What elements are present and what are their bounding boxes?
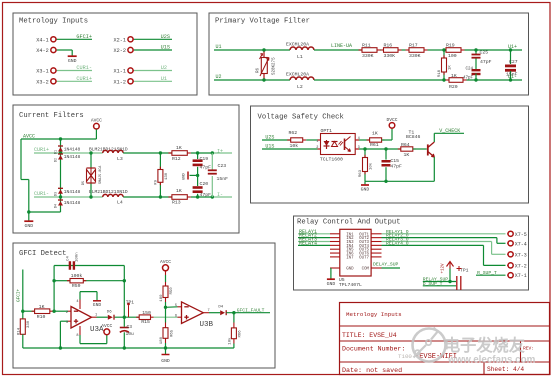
svg-text:CUR1-: CUR1- — [76, 65, 92, 71]
svg-text:GFCI+: GFCI+ — [76, 34, 92, 40]
svg-text:R_SUP_T: R_SUP_T — [477, 270, 497, 276]
svg-text:R50: R50 — [170, 287, 174, 295]
svg-text:R66: R66 — [239, 330, 243, 338]
svg-text:RELAY4: RELAY4 — [299, 240, 317, 246]
svg-text:8: 8 — [76, 334, 78, 338]
svg-text:Metrology Inputs: Metrology Inputs — [19, 18, 88, 26]
svg-text:D4: D4 — [218, 305, 223, 309]
svg-text:R9: R9 — [155, 179, 159, 184]
svg-text:47pF: 47pF — [480, 59, 492, 65]
svg-text:10u: 10u — [126, 331, 135, 337]
svg-text:C20: C20 — [200, 181, 209, 187]
svg-text:4: 4 — [76, 300, 78, 304]
svg-text:47pF: 47pF — [390, 164, 402, 170]
svg-text:100: 100 — [448, 53, 457, 59]
svg-text:R11: R11 — [362, 42, 371, 48]
svg-text:D2: D2 — [55, 158, 59, 162]
svg-text:DVCC: DVCC — [386, 117, 397, 123]
svg-text:X2-1: X2-1 — [114, 38, 126, 44]
svg-text:Relay Control And Output: Relay Control And Output — [297, 219, 401, 227]
svg-text:D3: D3 — [55, 192, 59, 196]
svg-text:Document Number:: Document Number: — [342, 346, 405, 353]
svg-text:U1S: U1S — [161, 45, 170, 51]
svg-text:U3B: U3B — [200, 321, 214, 329]
svg-text:6: 6 — [175, 314, 177, 318]
svg-text:C19: C19 — [200, 156, 209, 162]
svg-text:100n: 100n — [76, 252, 80, 262]
svg-text:Sheet: 4/4: Sheet: 4/4 — [487, 366, 524, 373]
svg-text:2: 2 — [316, 146, 318, 150]
svg-text:X1-1: X1-1 — [114, 69, 126, 75]
svg-text:R61: R61 — [370, 142, 379, 148]
svg-text:X2-2: X2-2 — [114, 48, 126, 54]
svg-text:+12V: +12V — [442, 263, 446, 274]
svg-text:10k: 10k — [290, 143, 299, 149]
svg-text:SMAJ5.0CA: SMAJ5.0CA — [99, 165, 103, 184]
svg-text:L4: L4 — [117, 200, 123, 206]
svg-text:15nF: 15nF — [506, 72, 518, 78]
svg-text:D1: D1 — [55, 150, 59, 154]
svg-text:15nF: 15nF — [217, 176, 229, 182]
svg-text:L2: L2 — [297, 84, 303, 90]
svg-text:Current Filters: Current Filters — [19, 112, 84, 120]
svg-text:1: 1 — [316, 140, 318, 144]
svg-text:R63: R63 — [359, 169, 363, 177]
svg-text:1K: 1K — [176, 145, 182, 151]
svg-text:X7-5: X7-5 — [515, 232, 527, 238]
svg-text:I-: I- — [217, 192, 223, 198]
svg-text:GND: GND — [346, 268, 354, 272]
svg-text:U2: U2 — [216, 74, 222, 80]
svg-text:D4: D4 — [55, 204, 59, 208]
svg-text:X1-2: X1-2 — [114, 80, 126, 86]
svg-text:130: 130 — [165, 172, 169, 180]
svg-text:R62: R62 — [289, 130, 298, 136]
svg-text:1N4148: 1N4148 — [64, 146, 81, 152]
svg-text:GND: GND — [361, 187, 370, 193]
svg-text:EXCML20A: EXCML20A — [286, 42, 309, 48]
svg-text:U2: U2 — [161, 65, 167, 71]
svg-text:X7-4: X7-4 — [515, 241, 527, 247]
svg-text:X3-2: X3-2 — [36, 80, 48, 86]
svg-text:C23: C23 — [218, 163, 227, 169]
svg-text:S20K275: S20K275 — [273, 57, 277, 75]
svg-text:TITLE: EVSE_U4: TITLE: EVSE_U4 — [342, 332, 397, 339]
svg-text:I+: I+ — [217, 149, 223, 155]
svg-text:1K: 1K — [451, 73, 457, 79]
svg-text:D6: D6 — [107, 310, 112, 314]
svg-text:C27: C27 — [509, 59, 518, 65]
svg-text:EXCML20A: EXCML20A — [286, 72, 309, 78]
svg-text:DELAY_SUP: DELAY_SUP — [373, 261, 399, 267]
svg-text:180: 180 — [160, 294, 164, 302]
svg-text:330K: 330K — [409, 53, 421, 59]
svg-text:C24: C24 — [465, 68, 473, 72]
svg-text:AVCC: AVCC — [23, 134, 35, 140]
svg-text:100k: 100k — [71, 273, 83, 279]
svg-text:Metrology Inputs: Metrology Inputs — [346, 311, 402, 318]
svg-text:330: 330 — [27, 320, 31, 328]
svg-text:1N4148: 1N4148 — [64, 200, 81, 206]
svg-text:TP1: TP1 — [126, 299, 135, 305]
svg-text:R59: R59 — [72, 283, 81, 289]
svg-text:IN7: IN7 — [346, 256, 354, 260]
svg-text:电子发烧友: 电子发烧友 — [444, 336, 526, 355]
svg-text:LINE-UA: LINE-UA — [331, 43, 352, 49]
svg-text:X3-1: X3-1 — [36, 69, 48, 75]
svg-text:330K: 330K — [384, 53, 396, 59]
svg-text:R6: R6 — [257, 68, 261, 74]
svg-text:180: 180 — [160, 336, 164, 344]
svg-text:5: 5 — [175, 304, 177, 308]
svg-text:Date: not saved: Date: not saved — [342, 367, 402, 375]
svg-text:CUR1-: CUR1- — [34, 191, 49, 197]
svg-text:X4-2: X4-2 — [36, 48, 48, 54]
svg-text:D_SUP_T: D_SUP_T — [423, 281, 443, 287]
svg-text:GFCI_FAULT: GFCI_FAULT — [237, 307, 265, 313]
svg-text:R20: R20 — [449, 84, 458, 90]
svg-text:CUR1+: CUR1+ — [76, 76, 92, 82]
svg-text:C3: C3 — [127, 324, 133, 330]
svg-text:OPT1: OPT1 — [321, 128, 333, 134]
svg-text:L1: L1 — [297, 54, 303, 60]
svg-text:GND: GND — [327, 281, 336, 287]
svg-text:1K: 1K — [449, 65, 453, 70]
svg-text:X7-1: X7-1 — [515, 273, 527, 279]
svg-text:R14: R14 — [18, 327, 22, 335]
svg-text:X7-2: X7-2 — [515, 263, 527, 269]
svg-text:GND: GND — [183, 172, 187, 180]
svg-text:OUT7: OUT7 — [359, 256, 369, 260]
svg-text:3: 3 — [66, 321, 68, 325]
svg-text:1N4148: 1N4148 — [64, 189, 81, 195]
svg-text:GND: GND — [93, 302, 102, 308]
svg-text:TCLT1600: TCLT1600 — [320, 156, 343, 162]
svg-text:AVCC: AVCC — [91, 118, 102, 124]
svg-text:R19: R19 — [446, 42, 455, 48]
svg-text:U2S: U2S — [161, 34, 170, 40]
svg-text:150: 150 — [142, 310, 151, 316]
svg-text:TPL7407L: TPL7407L — [339, 282, 362, 288]
svg-text:T100: T100 — [398, 353, 412, 360]
svg-text:COM: COM — [362, 268, 370, 272]
svg-text:AVCC: AVCC — [101, 323, 112, 329]
svg-text:330K: 330K — [362, 53, 374, 59]
svg-text:R17: R17 — [409, 42, 418, 48]
svg-text:R65: R65 — [170, 329, 174, 337]
svg-text:R18: R18 — [438, 69, 442, 77]
svg-text:Primary Voltage Filter: Primary Voltage Filter — [215, 18, 310, 26]
svg-text:2: 2 — [66, 311, 68, 315]
svg-text:R10: R10 — [37, 314, 46, 320]
svg-text:1K: 1K — [372, 131, 378, 137]
svg-text:GND: GND — [24, 223, 33, 229]
svg-text:1K: 1K — [39, 304, 45, 310]
svg-text:R13: R13 — [172, 199, 181, 205]
svg-text:R12: R12 — [172, 156, 181, 162]
svg-text:BC846: BC846 — [406, 134, 421, 140]
svg-text:GFCI+: GFCI+ — [17, 288, 22, 302]
svg-text:U1: U1 — [216, 44, 222, 50]
svg-text:1K: 1K — [176, 188, 182, 194]
svg-text:R15: R15 — [141, 319, 150, 325]
svg-text:V_CHECK: V_CHECK — [439, 128, 460, 134]
svg-text:10k: 10k — [227, 337, 232, 345]
svg-text:GFCI Detect: GFCI Detect — [19, 250, 66, 258]
svg-text:D5: D5 — [82, 181, 86, 185]
svg-text:L3: L3 — [117, 156, 123, 162]
svg-text:1N4148: 1N4148 — [64, 154, 81, 160]
svg-text:AVCC: AVCC — [160, 259, 171, 265]
svg-text:X7-3: X7-3 — [515, 252, 527, 258]
svg-text:GND: GND — [68, 58, 77, 64]
svg-text:C4: C4 — [67, 256, 71, 261]
svg-text:X4-1: X4-1 — [36, 38, 48, 44]
svg-text:1K: 1K — [404, 152, 410, 158]
svg-text:C25: C25 — [480, 50, 489, 56]
svg-text:C15: C15 — [390, 158, 399, 164]
svg-text:Voltage Safety Check: Voltage Safety Check — [258, 114, 344, 122]
svg-text:www.elecfans.com: www.elecfans.com — [447, 355, 536, 366]
svg-text:GND: GND — [161, 358, 170, 364]
svg-text:10k: 10k — [369, 162, 374, 170]
svg-text:R64: R64 — [401, 142, 410, 148]
svg-text:47pF: 47pF — [463, 77, 474, 81]
svg-text:CUR1+: CUR1+ — [34, 147, 49, 153]
svg-text:R16: R16 — [384, 42, 393, 48]
svg-text:47pF: 47pF — [200, 192, 212, 198]
svg-text:U1: U1 — [161, 76, 167, 82]
